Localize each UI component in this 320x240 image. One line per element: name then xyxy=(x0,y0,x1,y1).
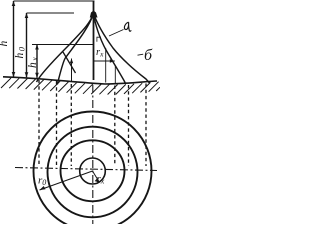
svg-text:h: h xyxy=(0,41,10,47)
svg-text:rx: rx xyxy=(96,47,104,59)
svg-text:б: б xyxy=(144,47,153,64)
svg-text:hx: hx xyxy=(27,56,40,68)
svg-text:h0: h0 xyxy=(14,46,27,59)
svg-text:rx: rx xyxy=(97,173,105,186)
svg-text:r0: r0 xyxy=(38,175,46,188)
